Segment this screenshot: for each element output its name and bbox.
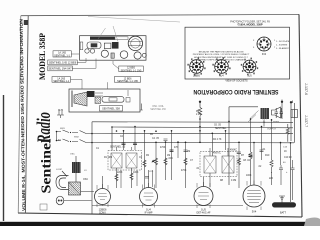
bottom black scan bar [0, 222, 309, 226]
trimmer circle a [85, 49, 89, 53]
dial drum rounded box [87, 42, 101, 49]
socket layout box outline [185, 27, 290, 79]
wire left vertical bus [91, 122, 93, 214]
page frame: right border [299, 14, 302, 217]
speaker cone hatched [74, 92, 87, 106]
callout box 3 [48, 59, 96, 71]
callout box 2 wide [48, 58, 86, 65]
svg-text:2 - SCREEN: 2 - SCREEN [276, 44, 288, 46]
svg-text:OSC: OSC [70, 154, 75, 156]
wire x121 short [120, 170, 122, 188]
wire x165 [165, 142, 167, 180]
svg-text:3V4: 3V4 [252, 210, 257, 214]
antenna loop L1 [56, 171, 69, 190]
tuning gang C1 hatched [69, 182, 81, 195]
speaker frame line [71, 91, 73, 108]
socket pin dots S1 [192, 62, 201, 71]
svg-text:47K: 47K [174, 147, 179, 149]
chassis rear view outline [69, 89, 140, 112]
svg-text:SENTINEL 456: SENTINEL 456 [150, 109, 166, 111]
wire x131 [131, 168, 133, 188]
rear small part right [126, 98, 130, 103]
svg-text:1 - 3V4 PLATE: 1 - 3V4 PLATE [276, 40, 290, 43]
svg-text:3V4: 3V4 [262, 53, 267, 56]
pointer diagonals to output transformer [248, 111, 259, 123]
wire vertical x282 [281, 102, 283, 119]
wire bus B5 right upper [229, 106, 258, 108]
wire x156 [155, 142, 157, 188]
bottom filament wiring [92, 120, 264, 206]
callout box 1A [53, 51, 79, 58]
resistor R2 vertical [115, 174, 118, 181]
svg-text:470K: 470K [160, 147, 166, 149]
wire bus B4 AVC [92, 142, 294, 144]
svg-text:C8 .02: C8 .02 [243, 160, 251, 162]
tube V3 1U5 [194, 182, 213, 214]
svg-text:1M: 1M [187, 151, 190, 153]
ground symbol at battery [279, 196, 285, 199]
svg-text:MODEL 358P: MODEL 358P [38, 33, 47, 80]
resistor R at x200 [198, 108, 202, 116]
svg-text:SENTINEL 1-1 1N5: SENTINEL 1-1 1N5 [117, 80, 138, 83]
svg-text:456 KC: 456 KC [213, 153, 221, 155]
dial scale dark bar [90, 37, 115, 40]
wire bus B1 top [92, 121, 293, 124]
tube circle A on chassis [101, 50, 108, 57]
sidebar rule inner [25, 16, 28, 213]
wire x137 short [136, 170, 138, 186]
tube V4 3V4 output [243, 181, 265, 214]
dial scale extension [115, 37, 128, 40]
svg-text:.004: .004 [168, 158, 173, 160]
wire vertical x294 right bus [293, 103, 295, 143]
resistor R11 right [286, 124, 289, 142]
socket S4 top right circle [253, 37, 276, 56]
rear bottom label box [100, 106, 123, 111]
rear small parts [95, 93, 103, 96]
tube circle B on chassis [120, 51, 128, 59]
gang trimmer rect left [80, 42, 83, 50]
svg-text:SPKR: SPKR [273, 122, 279, 124]
wire vertical x291 right bus [290, 103, 292, 142]
svg-text:C6 .05: C6 .05 [214, 125, 222, 127]
wire tube tops [103, 170, 255, 189]
wire x135 [134, 127, 136, 151]
alignment instruction paragraph [193, 51, 250, 62]
capacitor C9 [279, 165, 283, 174]
svg-text:117V: 117V [58, 110, 63, 112]
bottom right gray blob [304, 218, 320, 227]
IF transformer T2 dashed box [108, 147, 142, 170]
pointer diagonal 2 [113, 26, 118, 42]
wire vertical x229 [228, 107, 230, 185]
svg-text:SENTINEL RADIO CORPORATION: SENTINEL RADIO CORPORATION [193, 88, 278, 95]
battery B1 dark blob [272, 196, 296, 214]
svg-text:BECAUSE THE PARTS MOUNTED IN A: BECAUSE THE PARTS MOUNTED IN ALIGN [199, 51, 244, 54]
small component labels scattered [58, 111, 292, 182]
resistor R13 on x131 [130, 173, 133, 180]
speaker SP [272, 107, 281, 124]
label box osc coil on bus [140, 104, 167, 112]
extra capacitor symbols on verticals [164, 139, 264, 154]
svg-text:SENTINEL 1-1: SENTINEL 1-1 [54, 54, 70, 57]
junction dots right top [281, 101, 283, 103]
svg-text:PROPERLY AS FOLLOWS: 1 POINTS: PROPERLY AS FOLLOWS: 1 POINTS WHILE CONN… [193, 53, 250, 56]
part box mid [104, 43, 111, 49]
sidebar rule outer [18, 16, 21, 213]
wire x212 [209, 173, 211, 187]
resistor R7 vertical [237, 158, 240, 165]
socket pin dots S3 [245, 62, 254, 71]
wire v1 to filament [103, 205, 204, 206]
svg-text:Sentinel: Sentinel [39, 138, 54, 193]
svg-text:470K: 470K [181, 170, 187, 172]
wire x123 [123, 131, 125, 150]
wire x261 [261, 127, 263, 161]
oscillator coil T1 dark [70, 154, 81, 183]
tube V1 12BE6 [95, 184, 111, 214]
svg-text:SW1: SW1 [60, 128, 66, 130]
svg-text:220K: 220K [117, 172, 123, 174]
pilot lamp [56, 196, 64, 205]
wire vertical x104 [111, 127, 113, 151]
capacitor C2 [122, 143, 126, 145]
resistor R3 vertical [143, 160, 146, 167]
tube circle C on chassis [134, 52, 141, 59]
svg-text:J-137-7: J-137-7 [304, 115, 308, 127]
power plug symbol [57, 109, 64, 118]
speaker circle in chassis [128, 36, 142, 50]
output transformer T4 [261, 108, 270, 124]
wire x144 [144, 131, 146, 188]
small circle right edge [142, 53, 146, 57]
svg-text:SENTINEL 358: SENTINEL 358 [102, 107, 120, 111]
rear rounded label 1L4 [102, 97, 124, 103]
wire x152 [152, 170, 154, 187]
socket pin dots S4 [260, 39, 269, 48]
svg-text:R4 4.7K: R4 4.7K [213, 139, 222, 141]
wire x225 [225, 131, 227, 150]
svg-text:1U4: 1U4 [219, 76, 224, 78]
svg-text:100K: 100K [133, 172, 139, 174]
wire antenna to tube V1 [81, 191, 96, 193]
socket S3 circle [243, 60, 256, 77]
svg-text:12BE6: 12BE6 [193, 76, 201, 78]
wire x271 [271, 119, 273, 160]
svg-text:©1954, MODEL 358P: ©1954, MODEL 358P [237, 22, 262, 26]
capacitor C16 above V2 [145, 177, 149, 179]
callout box 4 [52, 77, 82, 89]
svg-text:IF AMP: IF AMP [145, 211, 153, 214]
trimmer circle b [90, 49, 94, 53]
capacitor C5 [170, 150, 174, 152]
svg-text:VIEW OF SOCKETS: VIEW OF SOCKETS [225, 80, 248, 83]
capacitor C3 [133, 143, 137, 145]
wire x239 [238, 142, 240, 188]
pointer diagonal into chassis [98, 28, 106, 39]
svg-text:SENTINEL: SENTINEL [215, 128, 227, 130]
socket pin numbers S3 [241, 58, 258, 76]
wire battery top [272, 172, 293, 200]
socket pin numbers S2 [212, 57, 230, 76]
socket S2 circle [215, 60, 229, 78]
svg-text:SENTINEL 1-1 1N5: SENTINEL 1-1 1N5 [121, 69, 142, 72]
svg-text:SW2: SW2 [74, 137, 80, 139]
electrolytic C10 [291, 160, 295, 176]
svg-text:1M: 1M [167, 155, 170, 157]
pin label column right edge [276, 40, 290, 50]
capacitor C11 right pair [275, 108, 279, 118]
wire x185 [185, 142, 187, 188]
svg-text:Radio: Radio [34, 112, 55, 144]
svg-text:R1 10M: R1 10M [104, 157, 112, 159]
svg-text:SENTINEL 1N4 047: SENTINEL 1N4 047 [48, 67, 72, 71]
capacitor C14 [260, 150, 264, 152]
svg-text:ADJUSTING INSTRUMENTS AT 1/455: ADJUSTING INSTRUMENTS AT 1/455 KC USING … [194, 56, 248, 59]
resistor R6 vertical [184, 158, 187, 165]
wire vertical x290 lower [290, 143, 292, 202]
wire x280 [280, 142, 282, 165]
svg-text:OUTPUT: OUTPUT [267, 129, 277, 131]
svg-text:SENTINEL .05: SENTINEL .05 [110, 147, 126, 149]
svg-text:1K: 1K [284, 151, 287, 153]
junction dot x200 top [199, 101, 201, 103]
wire filament bus [92, 205, 243, 207]
resistor R10 [270, 160, 273, 173]
sidebar small mark [40, 204, 47, 210]
callout box 6 row right [108, 77, 141, 89]
pointer line to speaker [88, 17, 180, 23]
wire stub tops right [282, 100, 293, 104]
svg-text:1U5: 1U5 [247, 75, 252, 77]
page frame: bottom border [18, 213, 302, 217]
svg-text:BATT: BATT [280, 211, 286, 214]
small socket square [111, 53, 114, 58]
switch SW1 contacts left [57, 130, 93, 143]
wire vertical x200 top [199, 102, 201, 143]
resistor R12 on x250 [249, 152, 252, 185]
socket pin numbers S1 [187, 57, 205, 76]
wire v4 top to transformer [253, 142, 255, 177]
capacitor C12 right pair [280, 108, 284, 118]
rear small post [127, 90, 129, 96]
svg-text:456KC: 456KC [230, 150, 237, 152]
wire x171 [171, 131, 173, 180]
svg-text:2.2M: 2.2M [196, 114, 201, 116]
IF transformer T3 dashed box [200, 148, 237, 177]
callout box 5 under chassis [113, 61, 143, 72]
wire x178 short [177, 142, 179, 158]
capacitor C15 [164, 139, 168, 141]
page number stamp 358P top-left corner [24, 20, 28, 25]
middle vertical wires with components [117, 119, 281, 188]
socket pin dots S2 [217, 62, 226, 71]
wire vertical x212 upper [211, 133, 213, 156]
book spine shadow line [3, 95, 5, 221]
svg-text:SENTINEL 1-1: SENTINEL 1-1 [53, 80, 69, 83]
wire bus B3 [92, 133, 293, 135]
speaker magnet assembly dark [87, 91, 95, 97]
switch junction dots [56, 131, 93, 144]
svg-text:OSC: OSC [83, 179, 88, 181]
svg-text:DET-AVC-AF: DET-AVC-AF [196, 211, 211, 214]
svg-text:C13 40: C13 40 [284, 157, 292, 159]
capacitor C6 [249, 155, 253, 157]
socket S1 circle [190, 60, 204, 78]
svg-text:VOL: VOL [149, 171, 154, 173]
wire lamp to V1 [64, 200, 92, 202]
svg-text:LOOP: LOOP [56, 169, 63, 171]
wire x116 [116, 168, 118, 188]
junction dots on buses [111, 118, 291, 143]
page frame: top border [21, 14, 299, 15]
wire x264 transformer down [263, 120, 265, 127]
wire x250 [250, 119, 252, 152]
svg-text:R10: R10 [265, 155, 270, 157]
svg-text:5 - FILAMENT: 5 - FILAMENT [276, 47, 290, 50]
svg-text:J-137-6: J-137-6 [304, 83, 308, 95]
battery plug P1 [291, 110, 298, 118]
svg-text:CONV.: CONV. [99, 211, 107, 214]
wire bus B2 [112, 126, 293, 129]
chassis top view outline [80, 36, 147, 61]
svg-text:100K: 100K [246, 175, 252, 177]
capacitor C7 [184, 150, 188, 152]
right side components stack [270, 160, 295, 200]
volume control with arrow [152, 158, 158, 165]
svg-text:OSC. COIL: OSC. COIL [152, 106, 164, 108]
svg-text:SENTINEL 1N5 12 BE6: SENTINEL 1N5 12 BE6 [49, 61, 77, 65]
tube V2 1U4 [140, 183, 158, 214]
svg-text:3.3M: 3.3M [231, 180, 236, 182]
resistor R5 vertical [164, 158, 167, 165]
IF can dark blob [112, 42, 119, 49]
svg-text:C4 .05: C4 .05 [152, 138, 160, 140]
capacitor C8 [237, 152, 241, 154]
